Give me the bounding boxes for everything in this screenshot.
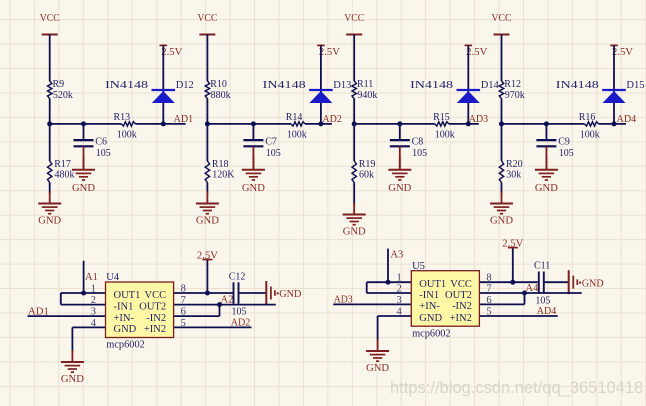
svg-text:D12: D12 [176,80,194,91]
svg-text:GND: GND [535,182,558,194]
svg-text:4: 4 [91,318,97,329]
svg-text:AD2: AD2 [322,113,342,125]
svg-text:C8: C8 [412,136,424,147]
svg-text:105: 105 [412,148,427,159]
svg-text:VCC: VCC [197,12,217,24]
svg-text:R17: R17 [54,159,71,170]
svg-text:1: 1 [397,273,402,284]
svg-text:AD2: AD2 [231,317,251,329]
svg-text:OUT1: OUT1 [114,290,141,301]
svg-text:A3: A3 [390,250,403,261]
svg-text:8: 8 [486,273,491,284]
svg-text:OUT1: OUT1 [419,279,446,290]
svg-text:C6: C6 [95,136,107,147]
svg-text:105: 105 [559,148,574,159]
svg-text:R15: R15 [433,112,450,123]
svg-text:120K: 120K [212,170,235,181]
svg-text:100k: 100k [117,129,137,140]
svg-text:AD1: AD1 [28,305,49,317]
svg-text:2: 2 [91,295,96,306]
svg-text:GND: GND [343,226,366,238]
svg-text:GND: GND [366,362,389,374]
svg-text:1: 1 [91,284,96,295]
svg-text:+IN-: +IN- [419,301,440,312]
svg-text:GND: GND [490,215,513,227]
svg-text:480k: 480k [55,170,75,181]
svg-text:C11: C11 [534,261,550,272]
svg-text:R12: R12 [504,79,521,90]
svg-text:VCC: VCC [40,12,60,24]
svg-text:OUT2: OUT2 [445,290,472,301]
svg-text:IN4148: IN4148 [263,80,306,91]
svg-text:8: 8 [181,284,186,295]
svg-text:D14: D14 [481,80,500,91]
svg-text:C9: C9 [558,136,570,147]
svg-text:R10: R10 [210,79,227,90]
svg-text:2: 2 [397,284,402,295]
svg-text:R11: R11 [357,79,373,90]
svg-text:940k: 940k [357,90,377,101]
svg-text:-IN1: -IN1 [114,301,134,312]
svg-text:2.5V: 2.5V [161,47,182,58]
svg-text:R9: R9 [53,79,65,90]
svg-text:-IN2: -IN2 [452,301,472,312]
svg-text:mcp6002: mcp6002 [106,340,145,351]
svg-text:7: 7 [181,295,186,306]
svg-text:2.5V: 2.5V [197,251,218,262]
svg-text:AD3: AD3 [469,113,489,125]
svg-text:R20: R20 [506,159,523,170]
svg-text:VCC: VCC [145,290,167,301]
svg-text:GND: GND [61,373,84,385]
svg-text:970k: 970k [505,90,525,101]
svg-text:VCC: VCC [450,279,472,290]
svg-text:GND: GND [38,215,61,227]
svg-text:IN4148: IN4148 [556,80,599,91]
svg-text:R13: R13 [114,112,131,123]
svg-text:GND: GND [114,324,137,335]
svg-text:U5: U5 [412,261,425,272]
svg-text:100k: 100k [580,129,600,140]
svg-text:-IN1: -IN1 [419,290,439,301]
svg-text:D13: D13 [333,80,351,91]
svg-text:U4: U4 [106,272,120,283]
svg-text:IN4148: IN4148 [105,80,148,91]
svg-text:R18: R18 [212,159,229,170]
svg-text:2.5V: 2.5V [612,47,633,58]
svg-text:AD4: AD4 [537,305,557,317]
svg-text:A2: A2 [221,295,234,306]
svg-text:520k: 520k [53,90,73,101]
svg-text:AD1: AD1 [174,113,194,125]
svg-text:GND: GND [72,182,95,194]
svg-text:7: 7 [486,284,491,295]
svg-text:GND: GND [279,288,301,300]
svg-text:3: 3 [397,295,402,306]
svg-text:2.5V: 2.5V [502,239,523,250]
svg-text:+IN-: +IN- [114,313,135,324]
svg-text:GND: GND [196,215,219,227]
svg-text:3: 3 [91,307,96,318]
svg-text:GND: GND [242,182,265,194]
svg-text:A1: A1 [85,272,98,283]
svg-text:OUT2: OUT2 [139,301,166,312]
svg-text:mcp6002: mcp6002 [412,328,451,339]
svg-text:100k: 100k [435,129,455,140]
svg-text:GND: GND [388,182,411,194]
svg-text:GND: GND [582,277,604,289]
svg-text:C7: C7 [265,136,277,147]
svg-text:https://blog.csdn.net/qq_36510: https://blog.csdn.net/qq_36510418 [390,379,643,397]
svg-text:C12: C12 [229,272,246,283]
svg-text:60k: 60k [359,170,374,181]
svg-text:105: 105 [266,148,281,159]
svg-text:AD3: AD3 [334,294,353,306]
svg-text:VCC: VCC [344,12,364,24]
svg-text:R16: R16 [579,112,596,123]
svg-text:A4: A4 [526,283,540,294]
svg-text:-IN2: -IN2 [146,313,166,324]
svg-text:100k: 100k [287,129,307,140]
svg-text:2.5V: 2.5V [319,47,340,58]
svg-text:AD4: AD4 [617,113,637,125]
svg-text:R19: R19 [359,159,376,170]
svg-text:GND: GND [419,313,442,324]
svg-text:IN4148: IN4148 [410,80,453,91]
svg-text:6: 6 [486,295,491,306]
svg-text:4: 4 [397,307,403,318]
svg-text:+IN2: +IN2 [144,324,166,335]
svg-text:D15: D15 [626,80,644,91]
svg-text:+IN2: +IN2 [450,313,472,324]
svg-text:5: 5 [181,318,186,329]
svg-text:30k: 30k [506,170,521,181]
svg-text:105: 105 [96,148,111,159]
svg-text:5: 5 [486,307,491,318]
svg-text:880k: 880k [211,90,231,101]
svg-text:2.5V: 2.5V [466,47,487,58]
svg-text:VCC: VCC [492,12,512,24]
svg-text:6: 6 [181,307,186,318]
svg-text:R14: R14 [286,112,303,123]
